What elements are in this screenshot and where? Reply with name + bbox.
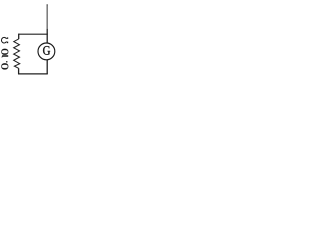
wire: vertical lead into junction and to galvanometer top [46,29,48,43]
resistor value label: digit 1 flag tick [1,56,4,59]
resistor value label: decimal point [6,61,8,62]
resistor value label: digit 0 lower [1,63,8,69]
wire: right bottom lead to galvanometer [46,60,48,74]
resistor value label: digit 1 (stem bar) [2,55,8,57]
galvanometer G: letter G [43,46,50,55]
wire: bottom horizontal wire [18,73,48,75]
wire: left bottom lead [18,68,20,74]
wire: darker tip of gray lead [46,4,48,5]
wire: top horizontal wire [19,33,48,35]
wire: gray upper lead from top edge [46,4,48,28]
resistor R (0.10 ohm shunt) zigzag [14,39,20,68]
resistor value label: omega glyph [1,37,7,43]
wire: left top lead [18,34,20,39]
galvanometer G: circle [38,43,55,60]
resistor value label: digit 0 upper [1,49,8,55]
